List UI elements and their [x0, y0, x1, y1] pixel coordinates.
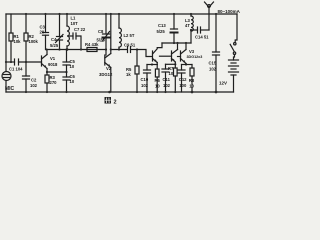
wire bottom ground bus [6, 91, 234, 93]
svg-text:V3: V3 [189, 49, 195, 54]
wire left edge (mic branch) [5, 14, 7, 72]
wire V2 emitter to ground [110, 68, 112, 93]
wire V5 base [178, 56, 181, 58]
svg-text:10: 10 [70, 64, 75, 69]
wire collector tank y49.5 [47, 49, 106, 51]
wire V4 emitter [174, 62, 176, 64]
node C11 ground [164, 91, 166, 93]
resistor R5 [135, 50, 139, 93]
node R2 bottom [25, 61, 27, 63]
node mic/C1 [5, 61, 7, 63]
node C6 ground [65, 91, 67, 93]
wire C9 to V3 base [137, 50, 152, 57]
svg-text:C13: C13 [158, 23, 166, 28]
node C9 out [136, 48, 138, 50]
svg-text:5/25: 5/25 [157, 29, 166, 34]
svg-text:10: 10 [169, 71, 174, 76]
svg-text:10: 10 [189, 84, 194, 89]
node L1 bottom [66, 48, 69, 51]
capacitor C11 [162, 64, 169, 92]
svg-text:C8: C8 [98, 29, 104, 34]
wire base line y62 [6, 61, 15, 63]
node C3 bottom [45, 48, 47, 50]
wire V1 collector [46, 50, 48, 55]
svg-text:10T: 10T [71, 21, 79, 26]
node R3 ground [46, 91, 48, 93]
svg-text:100: 100 [179, 83, 187, 88]
svg-text:102: 102 [30, 83, 38, 88]
capacitor C7 [70, 33, 82, 50]
capacitor C6 [63, 72, 70, 92]
wire V5 emitter [185, 64, 187, 65]
resistor R4 [87, 48, 97, 52]
wire top +12V bus [6, 13, 237, 15]
resistor R7 [174, 64, 178, 92]
svg-text:C9 51: C9 51 [124, 43, 136, 48]
svg-text:C2: C2 [31, 78, 37, 83]
node R8 ground [191, 91, 194, 94]
wire V5 emitter to C12 [182, 64, 187, 66]
node R5 ground [136, 91, 138, 93]
node C8 bottom [105, 48, 107, 50]
wire V5 emitter to R8 [186, 64, 192, 66]
svg-text:C14 51: C14 51 [195, 35, 209, 40]
svg-text:12V: 12V [219, 81, 227, 86]
caption figure 2 [105, 97, 112, 104]
wire battery branch [235, 14, 237, 43]
wire V3 emitter [156, 63, 158, 65]
wire V4 base [160, 55, 172, 57]
battery GB 12V [229, 54, 239, 92]
node L3 top [190, 13, 192, 15]
resistor R6 [155, 65, 159, 93]
transistor V5 [181, 50, 187, 64]
node V4 emitter [174, 63, 176, 65]
svg-text:10: 10 [155, 84, 160, 89]
node L3 bottom [190, 29, 192, 31]
node V5 emitter [185, 63, 187, 65]
svg-text:1k: 1k [126, 72, 131, 77]
svg-text:5/25: 5/25 [50, 43, 59, 48]
node C4 top [58, 13, 60, 15]
transistor V4 [172, 50, 178, 63]
node C15 ground [215, 91, 218, 94]
svg-text:9018: 9018 [48, 62, 58, 67]
node C7 bottom [80, 48, 82, 50]
svg-text:C15: C15 [209, 61, 217, 66]
electrolytic capacitor C13 [171, 14, 178, 43]
node L2 top [118, 13, 120, 15]
capacitor C12 [178, 65, 185, 93]
inductor L3 choke [191, 14, 193, 43]
wire emitter y64.5 to C10 [147, 64, 157, 66]
wire V2 collector line y49.5 [111, 49, 127, 51]
svg-text:C1 104: C1 104 [9, 67, 23, 72]
capacitor C14 [191, 27, 209, 33]
node C2 ground [25, 91, 27, 93]
node C5 C6 junction [65, 71, 67, 73]
svg-text:C4: C4 [51, 37, 57, 42]
svg-text:R6: R6 [155, 78, 161, 83]
capacitor C1 [15, 59, 19, 65]
svg-text:C7 22: C7 22 [74, 27, 86, 32]
svg-text:102: 102 [163, 83, 171, 88]
svg-text:L2 5T: L2 5T [124, 33, 135, 38]
antenna [205, 2, 214, 30]
node R1 bottom [10, 61, 12, 63]
svg-text:102: 102 [209, 67, 217, 72]
node C8 top [105, 13, 107, 15]
svg-text:V1: V1 [50, 56, 56, 61]
capacitor C2 [23, 62, 30, 92]
node R7 ground [174, 91, 176, 93]
svg-text:C11: C11 [163, 77, 171, 82]
capacitor C15 [213, 14, 220, 92]
svg-text:3DG12x3: 3DG12x3 [187, 55, 203, 59]
wire emitter to C5/C6 node [47, 71, 67, 73]
svg-text:R4 43k: R4 43k [85, 42, 99, 47]
node C3 top [44, 13, 46, 15]
electrolytic capacitor C8 [103, 14, 110, 50]
node V3 emitter [151, 63, 153, 65]
microphone MIC [2, 72, 11, 81]
node C13 top [173, 13, 175, 15]
svg-text:102: 102 [141, 83, 149, 88]
svg-text:20: 20 [40, 30, 45, 35]
wire V2 collector to bus [110, 14, 112, 54]
resistor R3 [45, 72, 49, 92]
switch S [230, 43, 236, 55]
capacitor C3 [43, 14, 49, 50]
inductor L1 [67, 14, 69, 50]
wire V4 collector [177, 43, 179, 50]
node C4 bottom [58, 48, 60, 50]
transistor V3 [153, 43, 163, 63]
resistor R2 [24, 14, 28, 62]
transistor V1 9018 [42, 55, 48, 69]
node C10 ground [146, 91, 148, 93]
svg-text:C12: C12 [179, 77, 187, 82]
resistor R8 [190, 65, 194, 93]
node C13 bottom [173, 42, 175, 44]
svg-text:L1: L1 [71, 16, 77, 21]
svg-text:10k: 10k [14, 39, 22, 44]
transistor V2 3DG12 [105, 50, 111, 68]
trimmer capacitor C4 [56, 14, 64, 50]
capacitor C10 [144, 65, 151, 93]
node C15 top [215, 13, 217, 15]
svg-text:R8: R8 [189, 78, 195, 83]
svg-text:10: 10 [70, 79, 75, 84]
node V1 emitter [46, 71, 48, 73]
node R6 ground [156, 91, 158, 93]
resistor R1 [9, 14, 13, 62]
svg-text:C10: C10 [141, 77, 149, 82]
svg-text:80~100mA: 80~100mA [218, 9, 241, 14]
wire V5 collector [185, 43, 187, 50]
node L2 bottom [118, 48, 120, 50]
node V2 emitter ground [108, 91, 111, 94]
svg-text:100k: 100k [29, 39, 39, 44]
svg-text:2: 2 [114, 100, 117, 106]
svg-text:MIC: MIC [5, 86, 15, 92]
capacitor C9 [128, 47, 138, 53]
wire collector sub-bus y43 [162, 42, 191, 44]
svg-text:5/25: 5/25 [97, 38, 106, 43]
wire V1 emitter [46, 69, 48, 73]
svg-text:270: 270 [50, 80, 58, 85]
svg-text:4T: 4T [185, 23, 190, 28]
wire V4 emitter to C11 [166, 63, 176, 65]
inductor L2 [119, 14, 121, 50]
capacitor C5 [63, 50, 70, 73]
node V2 collector top [110, 13, 112, 15]
node L1 top [66, 13, 68, 15]
node R2 top [25, 13, 27, 15]
